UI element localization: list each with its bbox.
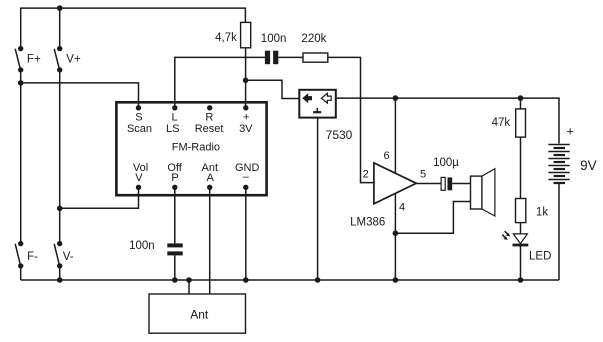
node V+ branch on top rail <box>57 5 63 11</box>
capacitor C2 100u electrolytic <box>441 177 452 190</box>
wire 3V rail to 7530 input <box>246 80 300 98</box>
LED D1 <box>513 234 529 245</box>
wire Vol feed <box>60 187 139 208</box>
wire battery minus to bus <box>558 183 560 280</box>
svg-text:LM386: LM386 <box>350 216 385 228</box>
speaker LS1 <box>471 169 495 216</box>
node rail LM386 pin6 <box>393 95 399 101</box>
svg-text:F+: F+ <box>27 54 41 66</box>
wire P pin to 100n <box>174 187 176 243</box>
svg-text:+: + <box>243 111 249 123</box>
wire V- to bus <box>59 266 61 280</box>
wire A pin to antenna <box>209 187 211 294</box>
wire bus stub to antenna <box>188 280 190 294</box>
svg-text:1k: 1k <box>536 206 548 218</box>
svg-text:2: 2 <box>363 169 369 181</box>
IC U1 FM-Radio box <box>116 102 266 195</box>
wire LM386 output <box>416 183 441 185</box>
pin P <box>172 185 177 190</box>
pin L <box>172 105 177 110</box>
antenna box Ant <box>149 294 246 333</box>
svg-text:LED: LED <box>529 250 551 262</box>
wire pin4 to bus <box>394 194 396 280</box>
svg-text:+: + <box>567 124 574 138</box>
svg-text:3V: 3V <box>239 123 253 135</box>
svg-text:–: – <box>243 171 250 183</box>
regulator internal ground symbol <box>313 108 321 112</box>
wire GND pin to bus <box>245 187 247 280</box>
svg-text:FM-Radio: FM-Radio <box>172 142 220 154</box>
svg-text:A: A <box>207 172 215 184</box>
switch V- <box>54 241 62 269</box>
node 4,7k branch to 7530 <box>243 78 249 84</box>
svg-text:LS: LS <box>166 123 179 135</box>
resistor 220k <box>303 53 328 62</box>
wire F- to bus <box>20 266 22 280</box>
resistor 1k <box>516 199 526 223</box>
node pin4 speaker return <box>393 230 399 236</box>
node bus GND pin column <box>243 277 249 283</box>
svg-text:7530: 7530 <box>326 128 353 142</box>
svg-text:5: 5 <box>420 169 426 181</box>
battery B1 9V <box>548 145 569 184</box>
resistor 47k <box>516 109 526 137</box>
wire speaker return <box>395 202 470 234</box>
node V/Vol junction <box>57 206 63 212</box>
node rail 47k <box>518 95 524 101</box>
wire 100n to bus <box>174 255 176 280</box>
wire V+ drop <box>59 8 61 49</box>
svg-text:100n: 100n <box>129 240 155 252</box>
pin +3V <box>243 105 248 110</box>
svg-text:F-: F- <box>27 251 38 263</box>
svg-text:Scan: Scan <box>127 123 152 135</box>
pin A <box>207 185 212 190</box>
wire 4,7k to +3V pin <box>245 48 247 108</box>
regulator U2 7530 box <box>299 90 336 118</box>
label pin names FM-Radio <box>127 111 260 184</box>
wire 47k to 1k <box>520 137 522 198</box>
svg-text:V-: V- <box>63 251 74 263</box>
switch F- <box>15 241 23 269</box>
node bus LM386 pin4 column <box>393 277 399 283</box>
svg-text:Reset: Reset <box>195 123 224 135</box>
pin minus <box>243 185 248 190</box>
wire 9V rail <box>336 98 559 143</box>
wire F column <box>20 70 22 244</box>
wire 1k to LED <box>520 223 522 234</box>
svg-text:Ant: Ant <box>190 308 209 322</box>
svg-text:220k: 220k <box>301 33 326 45</box>
wire V column <box>59 70 61 244</box>
svg-text:9V: 9V <box>580 158 597 173</box>
svg-text:100n: 100n <box>261 33 287 45</box>
svg-text:6: 6 <box>384 150 390 162</box>
svg-text:4,7k: 4,7k <box>215 32 237 44</box>
switch V+ <box>54 46 62 73</box>
pin V <box>136 185 141 190</box>
regulator arrow in (outline) <box>321 93 331 103</box>
wire Scan feed <box>21 83 139 108</box>
op-amp U3 LM386 <box>374 163 416 204</box>
svg-text:47k: 47k <box>492 117 511 129</box>
regulator arrow out (filled) <box>302 93 312 103</box>
capacitor 100n decoupling <box>167 243 182 255</box>
switch F+ <box>15 46 23 73</box>
node bus antenna stub <box>186 277 192 283</box>
LED light arrows <box>502 231 510 240</box>
wire LED to bus <box>520 246 522 280</box>
wire rail to 47k <box>520 98 522 109</box>
node bus LED column <box>518 277 524 283</box>
svg-text:P: P <box>171 172 178 184</box>
svg-text:V: V <box>135 172 143 184</box>
resistor 4,7k <box>241 22 251 47</box>
node bus 100n column <box>172 277 178 283</box>
wire top +3V rail <box>21 8 246 49</box>
node bus V column <box>57 277 63 283</box>
svg-text:V+: V+ <box>66 54 81 66</box>
node F/Scan junction <box>18 80 24 86</box>
wire 220k to LM386 input <box>328 57 374 182</box>
wire cap to speaker <box>452 183 470 185</box>
wire cap to 220k <box>278 56 303 58</box>
svg-text:100µ: 100µ <box>433 157 459 169</box>
wire pin6 supply <box>394 98 396 173</box>
wire LS to coupling cap <box>175 57 265 107</box>
node bus 7530 ground column <box>315 277 321 283</box>
pin R <box>207 105 212 110</box>
wire ground bus <box>21 279 559 281</box>
svg-text:4: 4 <box>399 201 405 213</box>
capacitor 100n coupling <box>265 51 278 64</box>
pin S <box>136 105 141 110</box>
wire 7530 ground to bus <box>317 118 319 280</box>
